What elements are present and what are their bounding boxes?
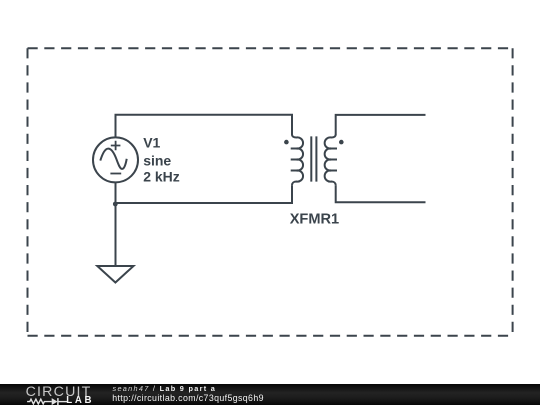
voltage source V1 minus sign <box>110 173 121 175</box>
voltage source V1 plus sign <box>111 141 121 151</box>
transformer XFMR1 primary winding <box>291 135 303 186</box>
footer attribution bar <box>0 384 540 405</box>
CircuitLab logo resistor-diode glyph + LAB <box>0 384 100 405</box>
svg-text:sine: sine <box>143 152 171 168</box>
polarity dot: secondary <box>339 140 344 145</box>
svg-text:XFMR1: XFMR1 <box>290 211 339 227</box>
border frame (dashed) <box>28 47 513 49</box>
voltage source V1 sine symbol <box>100 149 126 169</box>
svg-text:2 kHz: 2 kHz <box>143 168 180 184</box>
ground symbol <box>97 266 133 283</box>
wire: V1 top lead to XFMR1 primary top <box>116 115 293 138</box>
voltage source V1 (circle) <box>93 137 138 182</box>
attribution text line 2 <box>112 393 264 403</box>
svg-text:V1: V1 <box>143 135 160 151</box>
wire: ground stem <box>115 203 117 266</box>
CircuitLab logo wordmark CIRCUIT <box>26 385 92 399</box>
wire: XFMR1 secondary top lead <box>336 115 426 135</box>
transformer XFMR1 secondary winding <box>325 135 337 186</box>
polarity dot: primary <box>284 140 289 145</box>
attribution text line 1 <box>113 384 217 394</box>
junction node at V1 negative / ground <box>113 202 118 207</box>
transformer XFMR1 core (two lines) <box>311 136 316 181</box>
wire: V1 bottom node to XFMR1 primary bottom <box>116 182 293 203</box>
wire: XFMR1 secondary bottom lead <box>336 185 426 202</box>
